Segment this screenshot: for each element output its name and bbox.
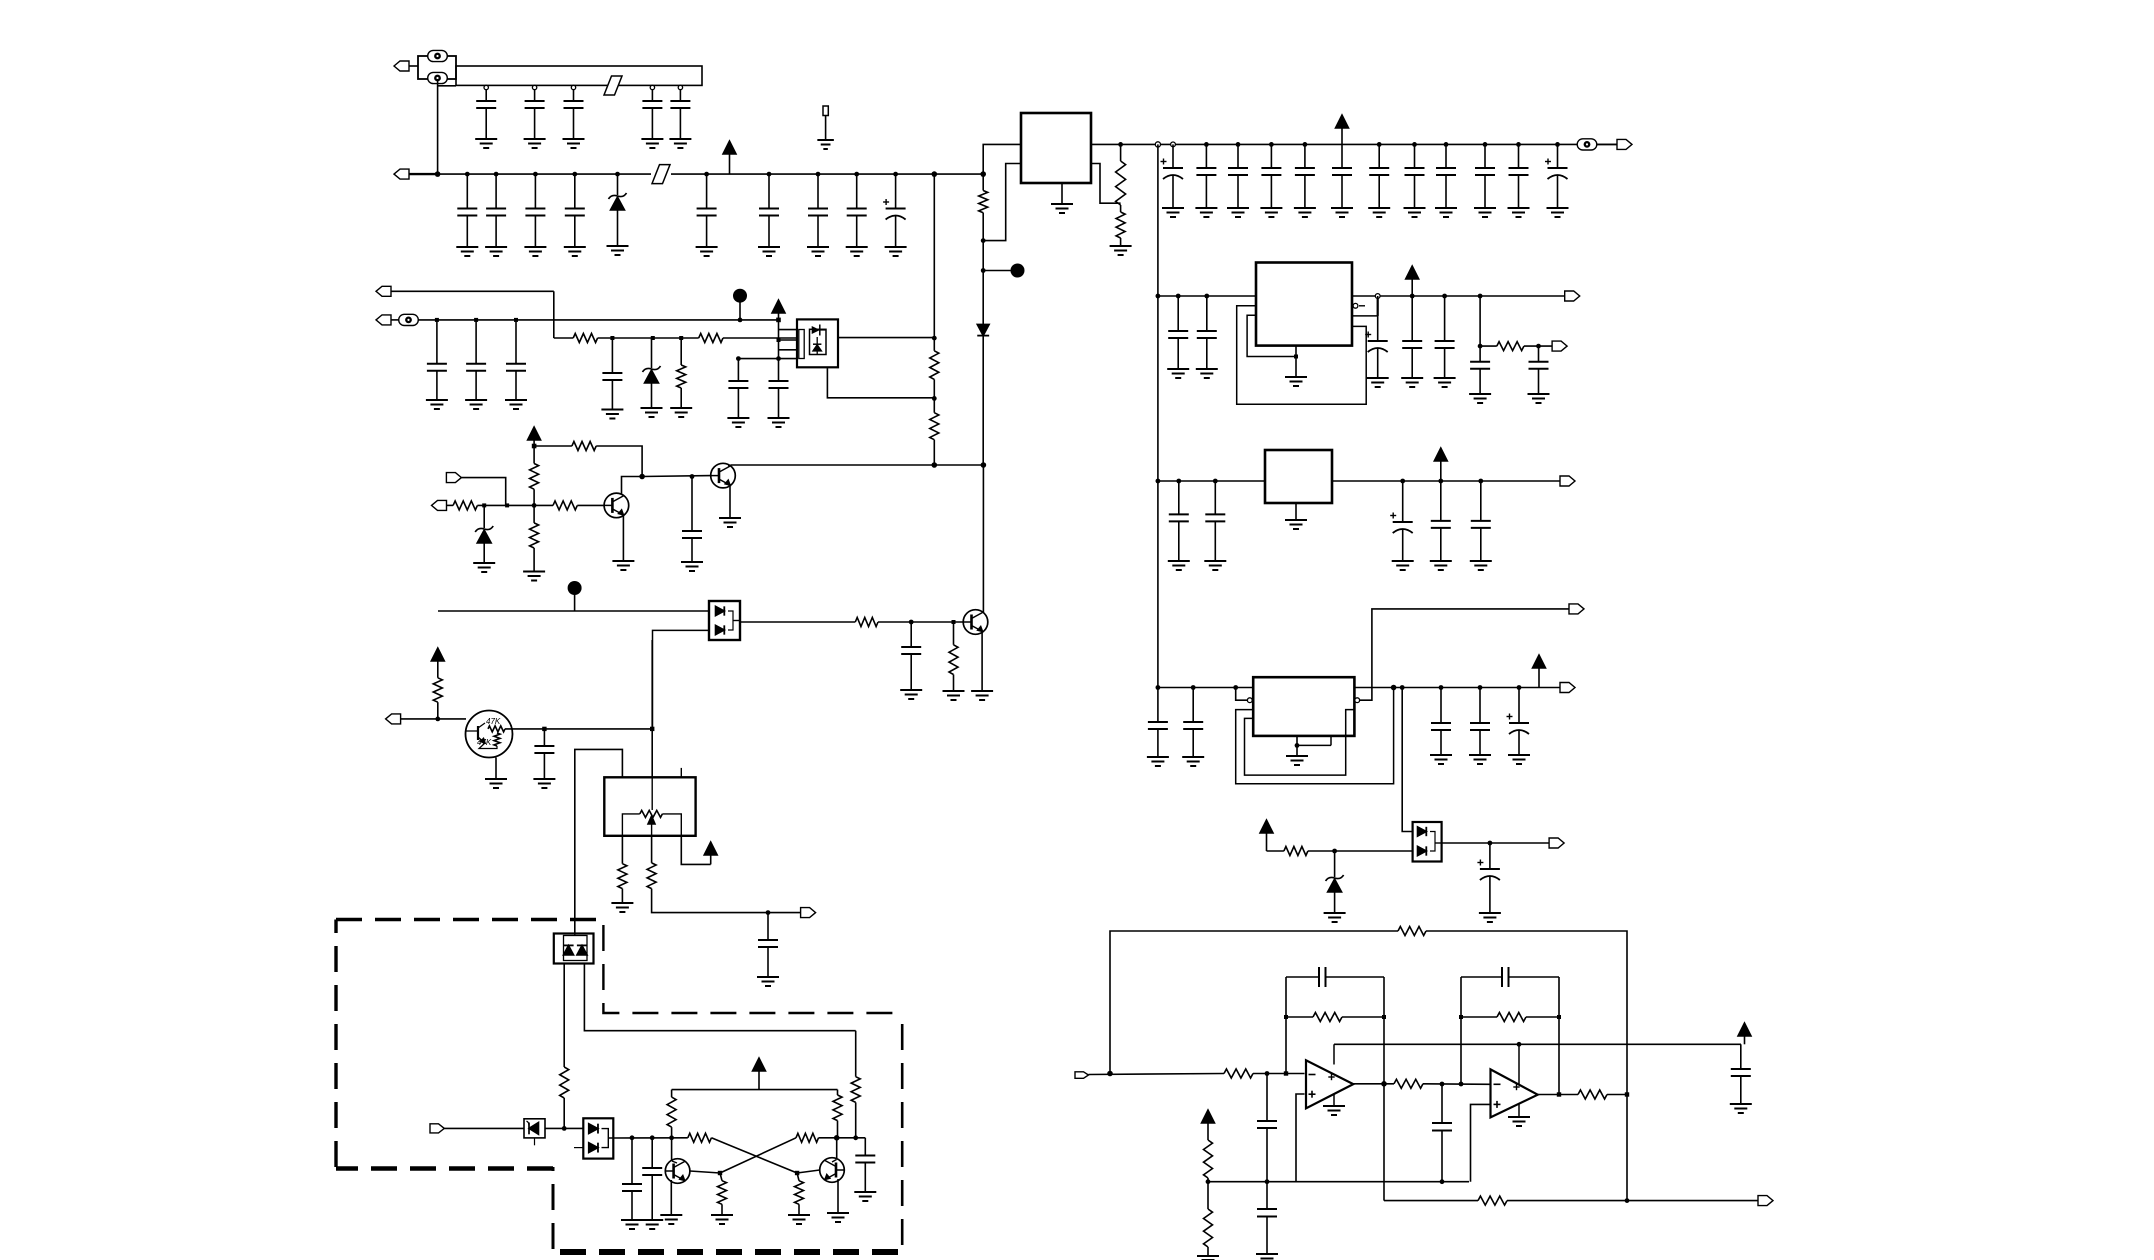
diode D6: [524, 1119, 545, 1146]
capacitor C40: [1196, 296, 1218, 378]
wire: [534, 445, 572, 447]
ground: [660, 1180, 682, 1224]
node: [1400, 479, 1405, 484]
node: [1284, 1071, 1288, 1075]
wire: [1426, 931, 1627, 1095]
dashed shield box: [336, 920, 902, 1253]
capacitor C17: [1227, 144, 1249, 217]
wire +in: [1296, 1094, 1305, 1182]
node: [435, 171, 441, 177]
power rail wire: [672, 1089, 838, 1091]
IC U5: [1256, 263, 1352, 346]
capacitor C18: [1260, 144, 1282, 217]
resistor R17: [611, 836, 633, 912]
node: [1269, 142, 1274, 147]
connector J16: [1569, 604, 1584, 614]
wire: [779, 339, 798, 341]
power flag VDD: [723, 141, 736, 174]
ground: [1323, 1106, 1345, 1115]
capacitor C41: [1365, 296, 1389, 387]
node: [932, 462, 938, 468]
wire: [653, 630, 710, 729]
node: [1284, 1015, 1288, 1019]
wire: [1383, 977, 1385, 1201]
capacitor C5: [669, 89, 691, 148]
node: [1557, 1015, 1561, 1019]
node: [1478, 344, 1483, 349]
wire: [598, 337, 699, 339]
node: [650, 727, 654, 731]
wire VOUT3: [1332, 480, 1560, 482]
node: [1156, 479, 1161, 484]
connector J4: [1617, 139, 1632, 149]
transistor Q6: [665, 1159, 690, 1184]
wire: [933, 174, 935, 338]
node: [1204, 294, 1209, 299]
ground: [1197, 1256, 1219, 1260]
node: [1382, 1015, 1386, 1019]
wire: [1538, 1094, 1578, 1096]
ground: [1256, 1254, 1278, 1259]
ground tab: [1285, 346, 1307, 386]
pin minus: [1352, 296, 1378, 316]
wire VOUT1: [1091, 143, 1617, 145]
capacitor C3: [563, 89, 585, 148]
connector pin J7: [399, 314, 419, 325]
pin wire: [1236, 688, 1253, 703]
wire: [1158, 687, 1253, 689]
wire: [418, 319, 779, 321]
node: [1442, 294, 1447, 299]
wire: [1308, 850, 1413, 852]
wire: [1285, 977, 1287, 1074]
node: [909, 620, 914, 625]
node: [718, 1171, 722, 1175]
wire: [1480, 345, 1497, 347]
wire: [738, 358, 797, 360]
diode D2: [977, 271, 989, 466]
ground tab: [1285, 503, 1307, 529]
zener D7: [1324, 851, 1346, 922]
node: [669, 1135, 674, 1140]
node: [630, 1135, 635, 1140]
resistor R33 fb: [1461, 1013, 1559, 1022]
resistor R3: [1110, 212, 1132, 255]
capacitor C50: [1470, 481, 1492, 570]
capacitor C23: [1474, 144, 1496, 217]
wire: [596, 446, 642, 477]
capacitor C34: [533, 729, 555, 788]
capacitor C21: [1404, 144, 1426, 217]
wire: [982, 465, 984, 613]
node: [1488, 841, 1493, 846]
feedback wire: [1110, 931, 1398, 1074]
op-amp U9B: [1491, 1044, 1538, 1117]
gate bus wire: [778, 320, 780, 359]
node: [1204, 142, 1209, 147]
node: [1191, 685, 1196, 690]
wire: [819, 1137, 866, 1139]
node: [1391, 685, 1397, 691]
connector J8: [432, 500, 454, 510]
transistor module Q5: [466, 711, 513, 758]
capacitor C20: [1368, 144, 1390, 217]
node: [1459, 1015, 1463, 1019]
wire: [1524, 345, 1552, 347]
node: [777, 338, 781, 342]
capacitor C48: [1390, 481, 1414, 570]
capacitor C35: [757, 913, 779, 986]
node A: [981, 264, 1025, 278]
transistor Q7: [820, 1158, 845, 1183]
resistor R28: [1284, 847, 1308, 856]
node: [1440, 1179, 1445, 1184]
wire: [827, 368, 934, 398]
ground: [612, 515, 634, 570]
node: [1107, 1071, 1113, 1077]
capacitor C25: [1545, 144, 1569, 217]
wire: [1442, 842, 1550, 844]
capacitor C8: [524, 174, 546, 256]
capacitor C15: [1161, 144, 1185, 217]
wire cross: [720, 1138, 796, 1173]
resistor R1: [979, 174, 988, 241]
resistor R29 fb: [1398, 927, 1426, 936]
resistor R32: [1394, 1079, 1423, 1088]
node: [1516, 142, 1521, 147]
wire base: [690, 1171, 720, 1173]
node: [1176, 479, 1181, 484]
zener D4: [473, 505, 495, 572]
node: [494, 172, 499, 177]
wire VOUT2: [1352, 295, 1565, 297]
capacitor C62: [1257, 1182, 1277, 1254]
resistor R25: [711, 1173, 733, 1224]
wire: [1558, 977, 1560, 1095]
node: [572, 172, 577, 177]
capacitor C26: [426, 320, 448, 409]
zener D3: [641, 338, 663, 417]
capacitor C16: [1195, 144, 1217, 217]
node B: [568, 581, 582, 611]
wire: [622, 477, 643, 496]
transistor Q2: [604, 493, 629, 518]
node: [854, 172, 859, 177]
wire VOUT4: [1354, 687, 1560, 689]
node: [980, 171, 986, 177]
connector J12: [430, 1124, 524, 1133]
optocoupler U2: [709, 601, 740, 640]
resistor R35: [1478, 1196, 1507, 1205]
capacitor C44: [1469, 346, 1491, 403]
wire: [731, 464, 983, 466]
capacitor C6: [456, 174, 478, 256]
node: [1265, 1071, 1270, 1076]
resistor R12: [453, 501, 477, 510]
power flag VF: [1738, 1023, 1751, 1044]
wire: [505, 728, 544, 730]
resistor R26: [788, 1173, 810, 1224]
node: [1206, 1179, 1211, 1184]
wire: [1597, 143, 1618, 145]
wire: [832, 1138, 837, 1162]
node: [679, 336, 683, 340]
node: [1478, 294, 1483, 299]
node: [465, 172, 470, 177]
pin: [571, 85, 575, 89]
capacitor C53: [1430, 688, 1452, 765]
wire: [1626, 1095, 1628, 1201]
capacitor C58 fb: [1286, 967, 1384, 987]
node: [767, 172, 772, 177]
pin: [532, 85, 536, 89]
resistor R27: [1497, 342, 1524, 351]
ferrite bead FB2: [652, 165, 670, 184]
wire: [577, 504, 604, 506]
wire base: [797, 1170, 820, 1173]
power flag VD: [753, 1058, 766, 1090]
node: [1410, 294, 1415, 299]
capacitor C2: [524, 89, 546, 148]
resistor R14: [855, 618, 878, 627]
wire: [1507, 1200, 1758, 1202]
case outline inner: [1245, 710, 1355, 776]
connector J14: [1552, 341, 1567, 351]
transistor Q4: [963, 610, 988, 635]
node: [1400, 685, 1405, 690]
capacitor C51: [1147, 688, 1169, 767]
node: [853, 1135, 858, 1140]
pin wire: [1355, 609, 1569, 703]
wire: [838, 337, 934, 339]
node: [562, 1126, 567, 1131]
node: [776, 318, 781, 323]
case outline: [1236, 688, 1394, 784]
wire: [1158, 480, 1265, 482]
pin: [1375, 294, 1380, 299]
pin: [484, 85, 488, 89]
node: [1438, 479, 1443, 484]
ground: [827, 1179, 849, 1222]
wire: [779, 329, 798, 331]
node C: [733, 289, 747, 323]
node: [615, 172, 620, 177]
wire: [563, 964, 565, 1068]
node: [952, 620, 956, 624]
node: [650, 1135, 655, 1140]
capacitor C4: [641, 89, 663, 148]
node: [514, 318, 518, 322]
power flag VB: [431, 648, 444, 678]
wire: [1479, 296, 1481, 346]
node: [1459, 1082, 1464, 1087]
resistor R22: [833, 1090, 842, 1138]
capacitor C19: [1294, 144, 1316, 217]
wire: [1423, 1083, 1490, 1086]
node: [816, 172, 821, 177]
node: [704, 172, 709, 177]
node: [1555, 142, 1560, 147]
wire: [553, 291, 555, 338]
fuse F1: [418, 50, 456, 83]
EMI filter FL1: [456, 66, 702, 85]
wire: [1460, 977, 1462, 1084]
capacitor C52: [1182, 688, 1204, 767]
node: [1176, 294, 1181, 299]
node: [482, 503, 486, 507]
wire: [779, 349, 798, 351]
capacitor C59: [1730, 1044, 1752, 1113]
resistor R15: [943, 622, 965, 700]
capacitor C61 fb: [1461, 967, 1559, 987]
capacitor C39: [1167, 296, 1189, 378]
connector J17: [1560, 683, 1575, 693]
connector J15: [1560, 476, 1575, 486]
capacitor C47: [1204, 481, 1226, 570]
node: [932, 336, 937, 341]
capacitor C55: [1507, 688, 1531, 765]
capacitor C60: [1432, 1084, 1452, 1182]
power flag VC: [681, 836, 717, 865]
wire: [672, 1138, 677, 1163]
IC U6: [1265, 450, 1332, 503]
wire: [1158, 295, 1256, 297]
node: [1517, 1042, 1522, 1047]
resistor R19: [560, 1067, 569, 1128]
node: [834, 1135, 840, 1141]
node: [532, 503, 537, 508]
capacitor C36: [621, 1138, 643, 1229]
node: [1381, 1081, 1387, 1087]
capacitor C14: [883, 174, 907, 256]
node: [1213, 479, 1218, 484]
capacitor C1: [475, 89, 497, 148]
wire: [613, 1137, 688, 1139]
wire: [740, 621, 855, 623]
capacitor C42: [1401, 296, 1423, 387]
node: [690, 474, 695, 479]
resistor R16: [433, 678, 442, 719]
IC U1: [1021, 113, 1091, 183]
capacitor C33: [900, 622, 922, 699]
node: [932, 171, 938, 177]
test point TP1: [817, 106, 834, 149]
wire: [983, 164, 1021, 241]
connector J18: [1549, 838, 1564, 848]
connector J20: [1758, 1196, 1773, 1206]
power flag VCC4: [1533, 655, 1546, 688]
zener D1: [607, 174, 629, 255]
wire cross: [711, 1138, 797, 1173]
node: [1303, 142, 1308, 147]
transistor Q3: [711, 463, 736, 488]
capacitor C22: [1435, 144, 1457, 217]
input connector J2: [394, 169, 438, 179]
node: [1440, 1082, 1445, 1087]
connector J9: [446, 473, 505, 506]
node: [1377, 142, 1382, 147]
wire: [554, 337, 573, 339]
node: [532, 444, 537, 449]
resistor R8: [930, 398, 939, 465]
capacitor C43: [1434, 296, 1456, 387]
wire: [438, 85, 456, 87]
connector J1: [394, 61, 418, 71]
capacitor C19b: [1331, 144, 1353, 217]
pin: [1171, 142, 1176, 147]
connector J6: [376, 315, 399, 325]
connector J10: [386, 714, 466, 724]
bottom node wire: [1208, 1181, 1469, 1183]
ground: [971, 632, 993, 700]
resistor R34: [1578, 1090, 1607, 1099]
op-amp U9A: [1306, 1044, 1353, 1108]
connector J19: [1075, 1072, 1224, 1079]
power flag VH: [772, 300, 785, 320]
node: [932, 396, 937, 401]
potentiometer box U3: [604, 777, 695, 836]
resistor R10: [530, 446, 539, 505]
node: [1557, 1092, 1561, 1096]
wire: [544, 728, 652, 730]
resistor R13: [553, 501, 577, 510]
capacitor C37: [641, 1138, 663, 1229]
node: [1478, 685, 1483, 690]
dual diode U8: [1413, 822, 1442, 862]
node: [1412, 142, 1417, 147]
node: [1517, 685, 1522, 690]
wire: [584, 964, 855, 1031]
node: [1265, 1179, 1270, 1184]
node: [1478, 479, 1483, 484]
resistor R36: [1204, 1140, 1213, 1182]
IC U7: [1253, 677, 1354, 736]
node: [639, 474, 645, 480]
output wire: [1384, 1200, 1478, 1202]
dual diode D5: [554, 934, 594, 964]
wire +in: [1471, 1104, 1491, 1181]
resistor R9: [572, 442, 596, 451]
resistor R30: [1224, 1069, 1253, 1078]
node: [981, 238, 986, 243]
wire: [477, 504, 553, 506]
node: [542, 727, 546, 731]
capacitor C29: [601, 338, 623, 419]
node: [736, 356, 741, 361]
resistor R20: [851, 1031, 860, 1138]
power flag VE: [1260, 820, 1284, 851]
resistor R2: [1116, 144, 1126, 212]
pin: [1155, 142, 1160, 147]
wire: [1353, 1083, 1394, 1085]
dual diode U4: [574, 1118, 613, 1158]
ground: [485, 758, 507, 789]
wire: [878, 621, 964, 623]
capacitor C7: [485, 174, 507, 256]
node: [1156, 294, 1161, 299]
capacitor C49: [1430, 481, 1452, 570]
resistor R11: [523, 505, 545, 580]
capacitor C54: [1469, 688, 1491, 765]
capacitor C28: [505, 320, 527, 409]
node: [435, 717, 440, 722]
potentiometer RV1: [622, 768, 681, 836]
power flag VA: [528, 427, 541, 446]
wire: [651, 640, 653, 778]
capacitor C38: [854, 1138, 876, 1201]
capacitor C11: [758, 174, 780, 256]
capacitor C10: [696, 174, 718, 256]
